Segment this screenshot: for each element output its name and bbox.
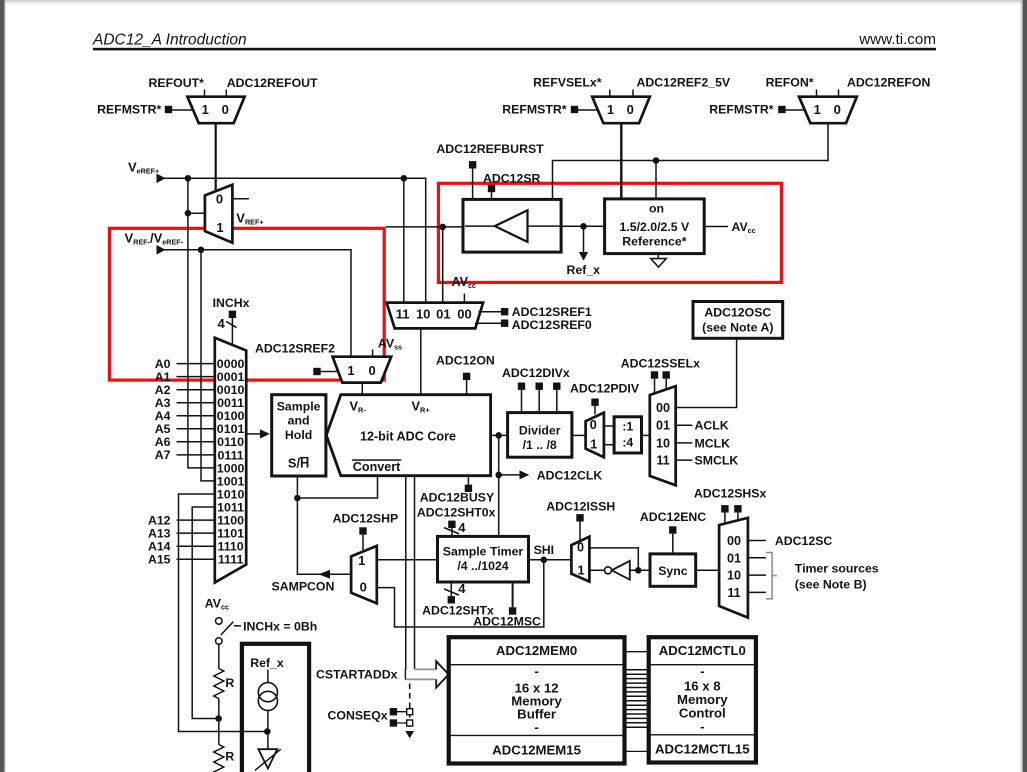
- wire branch down to SREF mux input 01: [442, 227, 444, 303]
- svg-text:R: R: [225, 750, 234, 764]
- wire REFVSELx mux output down into reference box: [620, 123, 622, 201]
- wire branch to VREF+ mux input: [188, 212, 206, 214]
- pin square ADC12SREF1: [501, 308, 508, 315]
- dashed pointer line with open squares: [409, 684, 411, 731]
- svg-text:ADC12_A Introduction: ADC12_A Introduction: [92, 32, 247, 49]
- svg-text:-: -: [700, 664, 704, 679]
- wire branch down to reference box (on input): [655, 161, 657, 200]
- svg-text:(see Note A): (see Note A): [702, 321, 773, 335]
- wire SSEL input MCLK: [676, 442, 693, 444]
- svg-text:-: -: [534, 720, 538, 735]
- svg-text:A6: A6: [155, 435, 171, 449]
- mux SAMPCON (1/0): [351, 546, 377, 604]
- svg-text:AVcc: AVcc: [205, 597, 229, 612]
- svg-text:ADC12SHSx: ADC12SHSx: [694, 487, 767, 501]
- wire buffer output to reference box: [561, 225, 605, 227]
- block Sample and Hold: [272, 395, 326, 476]
- pin square ADC12MSC: [509, 607, 516, 614]
- svg-text:ADC12SHT0x: ADC12SHT0x: [417, 506, 496, 520]
- junction dot SAMPCON: [294, 495, 301, 502]
- ground marker under reference box: [657, 254, 659, 259]
- svg-text:CONSEQx: CONSEQx: [328, 709, 388, 723]
- current source circles: [258, 683, 277, 702]
- svg-text:0000: 0000: [217, 357, 245, 371]
- pin square ADC12SR: [488, 185, 495, 192]
- svg-text:AVcc: AVcc: [732, 220, 756, 235]
- wire SHSx mux to Sync: [696, 569, 719, 571]
- block 16x8 memory control: [649, 637, 756, 762]
- wire SSEL input SMCLK: [676, 459, 693, 461]
- wire divider to PDIV mux: [572, 434, 586, 436]
- svg-text::1: :1: [622, 419, 633, 433]
- wire SHI: [529, 559, 572, 561]
- svg-text:00: 00: [727, 534, 741, 548]
- arrow SAMPCON direction: [319, 570, 331, 579]
- pin square ADC12SREF0: [501, 320, 508, 327]
- junction dot Ref_x tap: [580, 223, 587, 230]
- wire AVcc stub to SREF mux: [463, 294, 465, 303]
- junction dot zener node: [264, 728, 271, 735]
- red highlight rectangle left (VREF / INCHx region): [109, 228, 384, 380]
- svg-text:11: 11: [656, 454, 669, 468]
- wire MSC stub: [512, 582, 514, 607]
- junction dot sync output: [635, 567, 642, 574]
- svg-text:1110: 1110: [217, 540, 243, 554]
- pin squares CONSEQx: [390, 708, 397, 715]
- svg-text:0011: 0011: [217, 396, 244, 410]
- wire row 1010 from resistor ladder: [179, 494, 268, 732]
- svg-text:/4 ../1024: /4 ../1024: [457, 559, 508, 573]
- block Sync: [650, 554, 696, 586]
- zener diode: [258, 749, 277, 768]
- wire SHTx stub with slash: [450, 582, 452, 596]
- pin squares ADC12SSELx: [651, 371, 658, 378]
- wire SSEL 00 input from ADC12OSC: [676, 338, 737, 407]
- wire SREF1 select: [479, 311, 502, 313]
- wire VREF+ mux 0-stub right: [232, 198, 249, 200]
- svg-text:ADC12REFON: ADC12REFON: [847, 76, 930, 90]
- svg-text:A5: A5: [155, 422, 171, 436]
- pin squares ADC12SHSx: [721, 505, 728, 512]
- arrow Ref_x down: [579, 252, 588, 261]
- svg-text:11: 11: [727, 586, 740, 600]
- wire SREF2 output down to VR-: [361, 383, 363, 395]
- svg-text:0: 0: [368, 363, 375, 378]
- svg-text:Timer sources: Timer sources: [795, 562, 879, 576]
- svg-text:www.ti.com: www.ti.com: [858, 31, 936, 48]
- wires SHSx inputs: [748, 541, 766, 593]
- junction dot SHI: [541, 557, 548, 564]
- wire REFVSELx mux input stubs: [610, 90, 633, 97]
- wire INCHx select stub: [231, 318, 233, 346]
- svg-text:0: 0: [360, 580, 367, 595]
- svg-text:Sync: Sync: [658, 564, 688, 578]
- svg-text:INCHx = 0Bh: INCHx = 0Bh: [243, 620, 317, 634]
- arrow into S/H: [260, 429, 270, 438]
- buffer box: [463, 199, 561, 252]
- wires PDIV to prescaler: [604, 426, 614, 445]
- wire ISSH input 1 via inverter: [589, 569, 651, 571]
- wire REFOUT mux input stubs: [205, 90, 227, 97]
- wire SHP select stub: [362, 535, 364, 550]
- svg-text:A14: A14: [148, 539, 171, 553]
- svg-text:10: 10: [656, 436, 670, 450]
- svg-text:1: 1: [590, 437, 597, 451]
- wires ADC12DIVx stubs: [522, 390, 557, 413]
- svg-text:00: 00: [656, 401, 670, 415]
- switch INCHx=0Bh: [216, 618, 223, 625]
- bracket timer sources: [766, 553, 777, 599]
- wire branch VeREF+ down to channel mux row 1000: [188, 178, 215, 468]
- svg-text:ADC12MEM15: ADC12MEM15: [492, 743, 581, 758]
- svg-text:on: on: [649, 202, 664, 216]
- svg-text:ADC12REFBURST: ADC12REFBURST: [436, 142, 544, 156]
- reference box (1.5/2.0/2.5V): [605, 199, 705, 254]
- svg-text::4: :4: [622, 435, 633, 449]
- svg-text:0: 0: [590, 418, 597, 432]
- mux REFON (1 0): [799, 97, 857, 124]
- wire REFMSTR* to REFVSELx mux: [578, 109, 598, 111]
- svg-text:REFMSTR*: REFMSTR*: [709, 103, 773, 117]
- svg-text:VREF+: VREF+: [236, 211, 263, 227]
- svg-text:ADC12REF2_5V: ADC12REF2_5V: [637, 76, 731, 90]
- svg-text:A1: A1: [155, 370, 171, 384]
- wire current source to zener: [267, 711, 269, 750]
- svg-text:12-bit ADC Core: 12-bit ADC Core: [360, 429, 456, 443]
- svg-text:4: 4: [218, 316, 226, 331]
- svg-text:0111: 0111: [217, 448, 243, 462]
- pin square INCHx: [229, 311, 236, 318]
- wire channel mux output to S/H: [246, 433, 261, 435]
- input arrow VREF-: [157, 245, 166, 255]
- svg-text:0: 0: [834, 102, 841, 117]
- wire REFMSTR* to REFON mux: [786, 109, 806, 111]
- svg-text:1.5/2.0/2.5 V: 1.5/2.0/2.5 V: [620, 220, 691, 234]
- svg-text:1: 1: [607, 102, 614, 117]
- wire reference box to AVcc: [704, 226, 728, 228]
- svg-text:REFOUT*: REFOUT*: [149, 76, 205, 90]
- wire prescaler to SSEL mux: [642, 434, 650, 436]
- svg-text:ADC12MSC: ADC12MSC: [473, 615, 541, 629]
- wire buffer input rail: [386, 226, 463, 228]
- svg-text:-: -: [700, 719, 704, 734]
- svg-text:4: 4: [458, 581, 466, 596]
- wire ISSH select stub: [579, 522, 581, 542]
- svg-text:1000: 1000: [217, 461, 245, 475]
- wire inside buffer box: [465, 225, 560, 227]
- wire ADC12PDIV stub: [594, 406, 596, 415]
- svg-text:ADC12OSC: ADC12OSC: [704, 306, 771, 320]
- mux SREF2 (1 0): [333, 357, 392, 383]
- svg-text:ADC12ISSH: ADC12ISSH: [546, 500, 615, 514]
- svg-text:1: 1: [216, 220, 223, 235]
- pin square REFMSTR* (middle): [571, 106, 578, 113]
- svg-text:Sample: Sample: [277, 400, 321, 414]
- svg-text:0110: 0110: [217, 435, 244, 449]
- junction dot ADC12CLK: [495, 472, 502, 479]
- svg-text:-: -: [534, 664, 538, 679]
- wire between resistors: [218, 699, 220, 745]
- svg-text:0101: 0101: [217, 422, 245, 436]
- svg-text:(see Note B): (see Note B): [795, 578, 867, 592]
- mux channel select INCHx (16 inputs): [215, 338, 246, 583]
- svg-text:ADC12CLK: ADC12CLK: [537, 469, 603, 483]
- junction dot on REFON wire: [653, 157, 660, 164]
- wire SREF2 select: [321, 371, 344, 373]
- mux VREF+ select (0/1): [205, 185, 233, 243]
- mux SREF (11 10 01 00): [387, 303, 484, 329]
- svg-text:01: 01: [436, 306, 450, 321]
- wire AVss stub: [372, 350, 374, 358]
- junction dot VREF-: [198, 247, 205, 254]
- svg-text:VREF-/VeREF-: VREF-/VeREF-: [125, 231, 184, 247]
- svg-text:0: 0: [222, 102, 229, 117]
- junction dot resistor ladder: [215, 715, 222, 722]
- svg-text:ADC12SREF1: ADC12SREF1: [512, 305, 592, 319]
- svg-text:AVcc: AVcc: [452, 275, 476, 290]
- block 12-bit ADC core: [326, 395, 490, 476]
- svg-text:1010: 1010: [217, 487, 245, 501]
- svg-text:MCLK: MCLK: [695, 436, 731, 450]
- pin square ADC12ENC: [669, 526, 676, 533]
- pin square ADC12SHTx: [448, 596, 455, 603]
- wire SREF0 select: [475, 322, 501, 324]
- svg-text:ADC12MCTL0: ADC12MCTL0: [659, 643, 746, 658]
- svg-text:Reference*: Reference*: [622, 234, 686, 248]
- svg-text:1: 1: [814, 102, 821, 117]
- svg-text:A7: A7: [155, 448, 171, 462]
- wire ISSH input 0 from sync: [589, 548, 638, 570]
- svg-text:R: R: [225, 676, 234, 690]
- svg-text:1: 1: [347, 363, 354, 378]
- svg-text:REFMSTR*: REFMSTR*: [502, 103, 566, 117]
- junction dot at VREF+ mux branch: [185, 210, 192, 217]
- block Ref_x internal: [242, 644, 309, 772]
- wire SSEL input ACLK: [676, 424, 693, 426]
- wire ADC12ON stub: [466, 380, 468, 395]
- svg-text:Sample Timer: Sample Timer: [443, 544, 524, 558]
- svg-text:11: 11: [396, 306, 410, 321]
- wire SHT0x stub with slash: [451, 528, 453, 536]
- block Sample Timer: [438, 536, 529, 582]
- svg-text:0010: 0010: [217, 383, 245, 397]
- svg-text:10: 10: [416, 306, 430, 321]
- svg-text:1111: 1111: [218, 553, 244, 567]
- wire ADC12SR stub: [491, 192, 493, 199]
- svg-text:SMCLK: SMCLK: [695, 454, 739, 468]
- arrow dashed pointer: [405, 731, 414, 738]
- svg-text:0100: 0100: [217, 409, 245, 423]
- svg-text:10: 10: [727, 569, 741, 583]
- svg-text:REFON*: REFON*: [766, 76, 814, 90]
- big arrow CSTARTADDx into memory: [405, 661, 448, 688]
- junction dot divider input: [495, 432, 502, 439]
- wire branch VREF- down to channel mux row 1001: [201, 250, 215, 481]
- svg-text:ADC12MCTL15: ADC12MCTL15: [655, 742, 750, 757]
- svg-text:01: 01: [656, 419, 670, 433]
- svg-text:0: 0: [577, 541, 584, 555]
- pin square SREF2 select: [313, 368, 320, 375]
- block 16x12 memory buffer: [449, 637, 625, 763]
- svg-text:Convert: Convert: [353, 460, 401, 474]
- wires SHSx select stubs: [725, 513, 738, 525]
- svg-text:ADC12MEM0: ADC12MEM0: [496, 643, 577, 658]
- mux REFVSELx (1 0): [592, 97, 650, 124]
- svg-text:0: 0: [216, 192, 223, 207]
- svg-text:1001: 1001: [217, 474, 245, 488]
- pin square ADC12ON: [463, 373, 470, 380]
- svg-text:/1 .. /8: /1 .. /8: [523, 438, 557, 452]
- svg-text:ADC12SR: ADC12SR: [483, 172, 541, 186]
- svg-text:A4: A4: [155, 409, 171, 423]
- svg-text:1100: 1100: [217, 513, 244, 527]
- svg-text:1: 1: [577, 564, 584, 578]
- svg-text:AVss: AVss: [378, 337, 402, 352]
- bus ladder between memory and control: [625, 670, 649, 728]
- wire timer output to SAMPCON mux input 1: [377, 559, 438, 561]
- pin square ADC12PDIV: [591, 399, 598, 406]
- arrow ADC12CLK: [520, 470, 530, 479]
- wire SREF mux output down to VR+: [420, 328, 422, 394]
- mux ADC12SHSx (00 01 10 11): [719, 518, 748, 618]
- svg-text:SHI: SHI: [534, 543, 555, 557]
- wire REFON mux input stubs: [817, 90, 839, 97]
- wire ENC stub: [672, 534, 674, 554]
- svg-text:ADC12SREF0: ADC12SREF0: [512, 318, 592, 332]
- block prescaler :1 :4: [614, 417, 641, 453]
- inverter (SHI polarity): [612, 561, 630, 580]
- svg-text:ACLK: ACLK: [695, 419, 729, 433]
- svg-text:1: 1: [358, 553, 365, 568]
- svg-text:A3: A3: [155, 396, 171, 410]
- junction dot VeREF+ at x=188: [185, 175, 192, 182]
- wire VREF- rail to SREF2 mux: [164, 250, 351, 357]
- svg-text:REFMSTR*: REFMSTR*: [97, 103, 161, 117]
- pin square ADC12BUSY: [465, 485, 472, 492]
- wire row 1011 from resistor ladder: [192, 507, 218, 719]
- pin square ADC12REFBURST: [469, 161, 476, 168]
- mux ADC12SSELx (00 01 10 11): [650, 386, 676, 485]
- wire REFMSTR* to REFOUT mux: [172, 109, 193, 111]
- svg-text:1101: 1101: [217, 527, 244, 541]
- svg-text:00: 00: [457, 306, 471, 321]
- wire REFOUT mux output down to VREF+ mux: [215, 123, 217, 192]
- svg-text:VeREF+: VeREF+: [128, 160, 159, 176]
- svg-text:ADC12ENC: ADC12ENC: [640, 510, 706, 524]
- wire SHI branch to SAMPCON mux input 0: [377, 560, 544, 627]
- wire ADC12REFBURST stub: [472, 169, 474, 200]
- wire SAMPCON output to S/H and Convert: [297, 476, 351, 574]
- resistor R top: [214, 669, 224, 699]
- svg-text:A12: A12: [148, 513, 171, 527]
- overline on H of S/H: [300, 457, 309, 459]
- wire label to current source: [267, 670, 269, 684]
- pin square ADC12ISSH: [576, 514, 583, 521]
- pin square ADC12SHP: [359, 527, 366, 534]
- wire Ref_x tap down: [583, 226, 585, 252]
- svg-text:ADC12SHP: ADC12SHP: [333, 512, 399, 526]
- wire core to divider with ADC12CLK branch: [491, 434, 508, 436]
- wire REFON mux output down-left to reference/buffer boxes: [553, 123, 829, 199]
- svg-text:Hold: Hold: [285, 428, 312, 442]
- wire ADC12BUSY stub to core: [467, 476, 469, 485]
- mux REFOUT (1 0): [187, 97, 244, 124]
- svg-text:ADC12PDIV: ADC12PDIV: [570, 382, 640, 396]
- svg-text:ADC12REFOUT: ADC12REFOUT: [227, 76, 318, 90]
- mux ISSH (0/1): [571, 537, 589, 582]
- svg-text:4: 4: [458, 520, 466, 535]
- svg-text:ADC12BUSY: ADC12BUSY: [420, 491, 494, 505]
- svg-text:ADC12DIVx: ADC12DIVx: [502, 366, 570, 380]
- svg-text:A15: A15: [148, 553, 171, 567]
- wires ADC12SSELx stubs: [655, 379, 667, 394]
- pin square REFMSTR* (right): [778, 106, 785, 113]
- svg-text:ADC12ON: ADC12ON: [436, 354, 495, 368]
- svg-text:Ref_x: Ref_x: [567, 263, 601, 277]
- svg-text:and: and: [288, 414, 310, 428]
- svg-text:INCHx: INCHx: [213, 296, 250, 310]
- svg-text:0001: 0001: [217, 370, 245, 384]
- input arrow VeREF+: [157, 174, 166, 184]
- wires conversion data down to memory: [405, 476, 407, 680]
- pin squares ADC12DIVx: [518, 383, 525, 390]
- svg-text:1: 1: [202, 102, 209, 117]
- wire switch to resistor R (top): [218, 644, 220, 668]
- svg-text:ADC12SC: ADC12SC: [775, 534, 833, 548]
- pin square ADC12SHT0x: [448, 521, 455, 528]
- svg-text:ADC12SREF2: ADC12SREF2: [255, 342, 335, 356]
- svg-text:ADC12SSELx: ADC12SSELx: [621, 357, 700, 371]
- svg-text:SAMPCON: SAMPCON: [272, 580, 335, 594]
- svg-text:Divider: Divider: [519, 423, 561, 437]
- red highlight rectangle right (reference buffer region): [438, 183, 781, 282]
- block Divider /1../8: [508, 413, 572, 458]
- mux ADC12PDIV (0/1): [586, 413, 604, 458]
- junction dot buffer rail: [439, 224, 446, 231]
- wire VeREF+ rail: [164, 178, 426, 302]
- svg-text:Ref_x: Ref_x: [250, 656, 284, 670]
- junction dot VeREF+ at x=404: [401, 175, 408, 182]
- svg-text:REFVSELx*: REFVSELx*: [533, 76, 602, 90]
- pin square REFMSTR* (left): [165, 106, 172, 113]
- page header rule: [93, 48, 936, 51]
- wires memory to control top/bottom: [625, 652, 649, 752]
- resistor R bottom: [214, 745, 224, 772]
- svg-text:A13: A13: [148, 526, 171, 540]
- wire branch VeREF+ down to SREF mux input 11: [403, 178, 405, 302]
- wires CONSEQx to dashed pointer: [397, 712, 407, 723]
- svg-text:A0: A0: [155, 357, 171, 371]
- buffer amplifier triangle: [495, 210, 528, 242]
- svg-text:CSTARTADDx: CSTARTADDx: [316, 668, 398, 682]
- block ADC12OSC: [693, 302, 783, 339]
- svg-text:01: 01: [727, 551, 741, 565]
- svg-text:1011: 1011: [217, 500, 244, 514]
- svg-text:A2: A2: [155, 383, 171, 397]
- svg-text:0: 0: [627, 102, 634, 117]
